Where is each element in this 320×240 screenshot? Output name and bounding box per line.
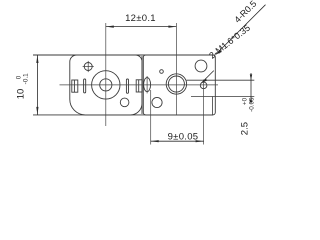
lower left hole circle [152,97,162,107]
dimension 2.5 tolerance [250,73,252,104]
gearbox bearing boss circle [92,71,120,99]
svg-text:-0.1: -0.1 [22,73,29,84]
left edge tab [72,80,78,92]
upper mounting hole circle [195,60,207,72]
motor side-view body outline [143,55,215,115]
svg-text:9±0.05: 9±0.05 [168,132,199,143]
svg-text:4-R0.5: 4-R0.5 [232,0,258,25]
gearbox body right edge [141,56,143,114]
gearbox front-view body outline [70,55,142,115]
lower screw hole circle [120,98,129,107]
extension line 9-dim right [203,80,205,145]
end-cap upper line / extension [186,79,254,81]
vertical centerline right view [175,23,177,116]
svg-text:-0.05: -0.05 [248,97,255,112]
left slot [84,79,86,93]
tiny pin hole [160,70,164,74]
right slot [126,79,128,93]
M1.6 tapped hole with cross [200,82,207,89]
output boss outer circle [166,74,186,94]
screw hole with center cross [84,63,92,71]
dimension 10 minus 0.1 [36,55,38,115]
end-cap vertical edge [212,97,214,115]
svg-text:12±0.1: 12±0.1 [125,13,156,24]
end-cap lower line / extension [191,96,254,98]
side tab oval [144,78,151,92]
dimension 9 plus-minus 0.05 [151,140,204,142]
right edge tab [136,80,142,92]
svg-text:10: 10 [16,89,27,100]
top edge / extension line [33,54,215,56]
horizontal centerline [60,84,219,86]
dimension 12 plus-minus 0.1 [106,26,177,28]
svg-text:2.5: 2.5 [239,122,250,135]
extension line 9-dim left [150,90,152,145]
leader 4-R0.5 corner radii [216,5,266,55]
output shaft hole circle [100,79,112,91]
bottom edge / extension line [33,114,213,116]
leader 2-M1.6x0.35 tapped holes [202,71,214,83]
output boss inner circle [168,76,184,92]
vertical centerline left view [105,23,107,126]
svg-text:2-M1.6*0.35: 2-M1.6*0.35 [207,23,252,61]
